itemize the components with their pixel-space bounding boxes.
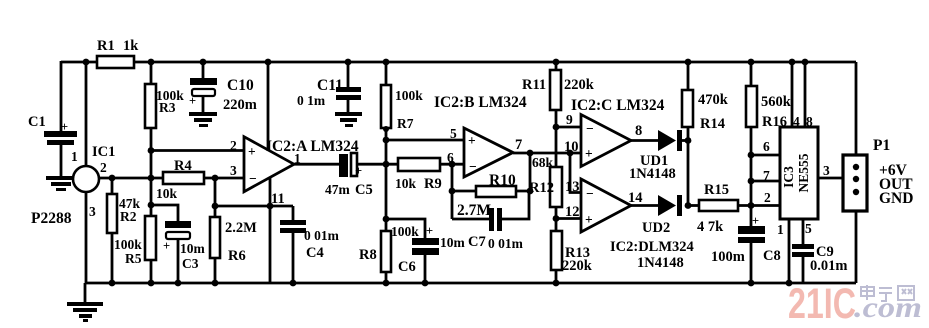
node: R14 bottom / UD1: [685, 137, 692, 144]
capacitor C5 (electrolytic 47m, in series): [325, 153, 373, 198]
svg-text:2: 2: [100, 160, 107, 175]
svg-text:3: 3: [89, 204, 96, 219]
node: R3 top on rail: [148, 59, 155, 66]
svg-text:12: 12: [565, 204, 580, 220]
ground (below C1): [46, 176, 76, 191]
svg-text:C8: C8: [763, 248, 781, 264]
node: R3/pin2 wire junction: [148, 147, 155, 154]
wire: R9 to IC2:B pin 6: [440, 163, 464, 166]
node: UD2 / R15: [685, 202, 692, 209]
svg-text:C10: C10: [227, 77, 254, 94]
wire: C8 bottom to rail: [750, 243, 753, 283]
wire: rail to 555 pin 4: [791, 62, 794, 127]
wire: C11 to ground: [347, 100, 350, 113]
svg-text:R8: R8: [359, 247, 377, 263]
resistor R4: [156, 158, 204, 201]
svg-text:R10: R10: [489, 172, 516, 189]
resistor R1: [97, 38, 139, 68]
wire: IC1 pin 3 to bottom rail: [85, 192, 88, 283]
svg-text:−: −: [586, 186, 594, 201]
svg-text:+: +: [585, 146, 593, 161]
svg-text:+: +: [189, 94, 196, 108]
wire: UD1 cathode to node: [682, 139, 688, 142]
svg-text:10m: 10m: [180, 241, 206, 256]
svg-text:IC1: IC1: [92, 144, 115, 160]
node: C8 bottom on rail: [748, 280, 755, 287]
svg-text:0 01m: 0 01m: [488, 236, 524, 251]
node: feedback right: [527, 188, 534, 195]
node: feedback tap at pin 6: [449, 161, 456, 168]
node: 555 pin 4 on rail: [789, 59, 796, 66]
svg-text:+: +: [61, 120, 68, 134]
svg-text:2: 2: [230, 138, 237, 153]
op-amp U4 IC2:D LM324: [565, 179, 643, 232]
node: R14 top on rail: [685, 59, 692, 66]
node: pin 11 crossing lower net: [267, 203, 274, 210]
wire: R3 bottom down through nodes to R5: [150, 128, 153, 216]
wire: C1 to ground: [60, 145, 63, 177]
microphone IC1 P2288: [31, 144, 115, 227]
wire: IC2:C output to UD1: [631, 139, 659, 142]
wire: C3 bottom to rail: [177, 239, 180, 283]
svg-text:+: +: [355, 164, 362, 178]
wire: R16 bottom down to pin 2 row: [750, 127, 753, 206]
svg-text:C4: C4: [306, 245, 324, 261]
svg-text:13: 13: [565, 179, 580, 195]
node: rail to mic pin 1: [83, 59, 90, 66]
svg-text:IC2:B LM324: IC2:B LM324: [434, 94, 527, 111]
node: pin 6 tap: [748, 152, 755, 159]
resistor R13: [551, 231, 593, 283]
svg-text:R7: R7: [397, 116, 414, 131]
diode UD2 1N4148: [610, 195, 694, 271]
svg-text:9: 9: [566, 112, 573, 127]
svg-text:C6: C6: [398, 259, 416, 275]
node: pin 12 node: [553, 215, 560, 222]
resistor R15: [697, 182, 738, 235]
node: R6 bottom on rail: [212, 280, 219, 287]
node: C3 bottom on rail: [175, 280, 182, 287]
wire: to 555 pin 6: [751, 154, 780, 157]
wire: 555 pin 1 to rail: [788, 219, 791, 283]
wire: R15 to 555 pin 2: [738, 204, 780, 207]
svg-text:470k: 470k: [698, 92, 729, 108]
wire: lower net to C4: [215, 205, 293, 208]
svg-text:5: 5: [805, 221, 812, 236]
svg-text:100m: 100m: [711, 249, 745, 265]
svg-text:8: 8: [635, 123, 642, 139]
resistor R2: [107, 178, 141, 283]
wire: R4 right to IC2:A pin 3: [204, 177, 244, 180]
wire: to IC2:C pin 9: [556, 126, 581, 129]
node: R4 right junction: [212, 175, 219, 182]
svg-text:IC2:C LM324: IC2:C LM324: [571, 97, 665, 114]
svg-text:1N4148: 1N4148: [637, 255, 684, 271]
svg-text:2.7M: 2.7M: [457, 202, 491, 219]
svg-text:C5: C5: [355, 182, 373, 198]
svg-text:6: 6: [763, 139, 770, 154]
svg-text:R5: R5: [125, 251, 142, 266]
wire: node to IC2:A pin 2: [151, 149, 244, 152]
resistor R11: [522, 62, 595, 110]
capacitor C1 (electrolytic): [28, 114, 77, 145]
svg-text:220m: 220m: [223, 97, 257, 113]
wire: to IC2:D pin 12: [556, 217, 581, 220]
svg-text:R3: R3: [159, 100, 176, 115]
node: 555 pin 8 on rail: [802, 59, 809, 66]
svg-text:+: +: [585, 212, 593, 227]
resistor R14: [682, 62, 729, 132]
node: signal/R7 vertical crossing: [383, 161, 390, 168]
node: C3 stub tap: [148, 202, 155, 209]
resistor R7: [381, 62, 423, 131]
svg-text:6: 6: [447, 150, 454, 165]
top supply rail (main, right of R1 to right corner): [134, 61, 856, 64]
node: R2 top: [109, 175, 116, 182]
svg-text:IC2:DLM324: IC2:DLM324: [610, 239, 694, 255]
ground (below C10): [189, 112, 217, 127]
node: R5 bottom on rail: [148, 280, 155, 287]
resistor R9: [395, 158, 442, 192]
wire: 555 pin 3 to P1: [818, 177, 843, 180]
svg-text:R1: R1: [97, 38, 115, 54]
node: R13 bottom on rail: [553, 280, 560, 287]
svg-text:R11: R11: [522, 77, 546, 93]
node: pin 2 / C8 junction: [748, 202, 755, 209]
wire: C5 to R9: [357, 163, 398, 166]
wire: C3 stub: [151, 205, 178, 222]
wire: IC2:A output to C5: [294, 163, 339, 166]
top supply rail (left segment to R1): [61, 61, 97, 64]
svg-text:GND: GND: [879, 190, 913, 207]
node: R7 top on rail: [383, 59, 390, 66]
connector P1: [843, 137, 913, 211]
svg-text:1k: 1k: [123, 38, 139, 54]
svg-text:−: −: [469, 159, 477, 174]
wire: branch to IC2:D pin 13: [570, 153, 581, 193]
node: R7 bottom: [383, 126, 389, 132]
resistor R8: [359, 231, 391, 283]
svg-text:C1: C1: [28, 114, 46, 130]
svg-text:10: 10: [564, 139, 579, 155]
svg-text:R15: R15: [704, 182, 729, 198]
svg-text:68k: 68k: [532, 155, 554, 170]
wire: to IC2:B pin 5: [386, 139, 464, 142]
capacitor C6 (electrolytic 10m): [391, 224, 466, 275]
node: pin 5 tap: [383, 137, 390, 144]
node: R8 bottom on rail: [383, 280, 390, 287]
svg-text:C7: C7: [468, 234, 486, 250]
node: mic wire crossing: [148, 175, 155, 182]
wire: C10 to ground: [202, 96, 205, 113]
node: C6 stub tap: [383, 216, 390, 223]
ground (below C11): [335, 112, 362, 127]
svg-text:10m: 10m: [440, 235, 466, 250]
svg-text:100k: 100k: [391, 224, 419, 239]
wire: R7 bottom down to R8: [385, 128, 388, 231]
wire: C6 stub: [386, 219, 425, 239]
svg-text:+: +: [248, 144, 256, 159]
svg-text:5: 5: [450, 126, 457, 141]
svg-text:21IC: 21IC: [788, 280, 856, 328]
svg-text:+: +: [426, 224, 433, 238]
svg-text:1: 1: [777, 222, 784, 237]
resistor R12 (68k): [529, 155, 562, 207]
wire: IC2:B output to IC2:C pin 10: [513, 152, 581, 155]
svg-text:220k: 220k: [564, 77, 595, 93]
capacitor C7 (0 01m): [468, 208, 524, 251]
svg-text:NE555: NE555: [796, 153, 811, 192]
wire: IC2:A pin 11 to ground rail: [269, 178, 272, 283]
wire: C9 bottom to rail: [802, 257, 805, 283]
svg-text:1N4148: 1N4148: [629, 166, 676, 182]
node: R2 bottom on rail: [109, 280, 116, 287]
svg-text:14: 14: [628, 190, 643, 206]
capacitor C11 (0 1m): [297, 59, 361, 108]
capacitor C8 (electrolytic 100m): [711, 206, 781, 266]
svg-text:+: +: [163, 239, 170, 253]
node: pin 13 branch tap: [567, 150, 574, 157]
node: R11 top on rail: [553, 59, 560, 66]
resistor R6: [210, 206, 257, 283]
svg-text:0 01m: 0 01m: [304, 228, 340, 243]
svg-text:2: 2: [764, 190, 771, 205]
wire: P1 bottom to ground rail: [855, 211, 858, 283]
node: pin 9 node: [553, 124, 560, 131]
svg-text:IC3: IC3: [781, 166, 796, 188]
svg-text:R14: R14: [700, 116, 725, 132]
svg-text:R6: R6: [228, 248, 246, 264]
wire: C7 loop bottom left: [452, 218, 491, 221]
svg-text:8: 8: [806, 114, 813, 129]
svg-text:R4: R4: [174, 158, 192, 174]
resistor R16: [746, 62, 792, 130]
watermark dianziwang glyphs: [861, 285, 914, 301]
wire: IC1 pin 2 to R4: [99, 177, 163, 180]
svg-text:7: 7: [763, 168, 770, 183]
wire: C7 loop bottom right: [501, 191, 529, 219]
svg-text:UD2: UD2: [642, 220, 670, 236]
svg-text:R9: R9: [424, 176, 442, 192]
wire: R11 bottom through to R12: [555, 110, 558, 167]
wire: rail to IC2:A pin 4: [267, 62, 270, 150]
resistor R5: [114, 216, 156, 283]
svg-text:+: +: [752, 214, 759, 228]
svg-text:3: 3: [230, 163, 237, 178]
svg-text:4: 4: [793, 114, 800, 129]
node: feedback left: [449, 188, 456, 195]
svg-text:4 7k: 4 7k: [697, 219, 724, 235]
wire: down from R4 node to lower net: [214, 178, 217, 206]
svg-text:560k: 560k: [761, 94, 792, 110]
svg-text:7: 7: [515, 137, 522, 153]
resistor R3: [145, 62, 184, 128]
node: C6 bottom on rail: [422, 280, 429, 287]
svg-text:3: 3: [823, 163, 830, 178]
svg-text:C3: C3: [182, 256, 199, 271]
svg-text:0 1m: 0 1m: [297, 93, 326, 108]
wire: left drop from rail to C1: [60, 61, 63, 132]
svg-text:0.01m: 0.01m: [810, 258, 847, 274]
svg-text:P1: P1: [873, 137, 890, 154]
svg-text:R2: R2: [120, 209, 137, 224]
node: R16 top on rail: [748, 59, 755, 66]
svg-text:+: +: [468, 133, 476, 148]
svg-text:10k: 10k: [156, 186, 178, 201]
svg-text:−: −: [586, 121, 594, 136]
svg-text:47m: 47m: [325, 182, 351, 197]
wire: 555 pin 5 to C9: [802, 219, 805, 245]
node: C4 bottom on rail: [290, 280, 297, 287]
timer IC3 NE555: [763, 114, 830, 237]
wire: right rail drop to P1: [855, 62, 858, 155]
wire: pin6 down to feedback row: [451, 164, 454, 219]
capacitor C9 (0.01m): [792, 244, 847, 274]
node: feedback top tap: [527, 150, 534, 157]
resistor R10: [457, 172, 516, 219]
svg-text:−: −: [249, 171, 257, 186]
node: pin 7 tap: [748, 178, 755, 185]
node: R6 top: [212, 203, 219, 210]
op-amp U1 IC2:A LM324: [230, 137, 359, 207]
node: pin 1 on rail: [786, 280, 793, 287]
wire: node to R15: [688, 204, 699, 207]
diode UD1 1N4148: [629, 130, 682, 182]
wire: rail to 555 pin 8: [804, 62, 807, 127]
op-amp U3 IC2:C LM324: [564, 97, 665, 167]
op-amp U2 IC2:B LM324: [434, 94, 527, 177]
svg-text:1: 1: [71, 149, 78, 164]
wire: IC2:D output to UD2: [631, 204, 659, 207]
wire: UD1 node down to UD2 node: [687, 127, 690, 206]
svg-text:R12: R12: [529, 180, 554, 196]
capacitor C4 (0 01m): [280, 206, 340, 283]
svg-text:P2288: P2288: [31, 210, 72, 227]
wire: R12 bottom to R13: [555, 207, 558, 231]
svg-text:100k: 100k: [114, 237, 142, 252]
svg-text:220k: 220k: [562, 258, 593, 274]
capacitor C10 (electrolytic 220m): [189, 59, 257, 113]
svg-text:2.2M: 2.2M: [225, 220, 257, 236]
bottom ground rail: [85, 282, 856, 285]
wire: to 555 pin 7: [751, 180, 780, 183]
wire: feedback row: [452, 190, 530, 193]
capacitor C3 (electrolytic 10m): [163, 221, 206, 271]
wire: feedback vertical: [529, 153, 532, 191]
svg-text:IC2:A LM324: IC2:A LM324: [266, 138, 359, 155]
wire: pin 1 of IC1 to rail: [85, 62, 88, 166]
svg-text:10k: 10k: [395, 176, 417, 191]
svg-text:100k: 100k: [395, 88, 423, 103]
wire: C6 bottom to rail: [424, 255, 427, 283]
node: op-amp supply tap on rail: [265, 59, 272, 66]
svg-text:C11: C11: [317, 77, 343, 94]
ground (main, bottom-left): [67, 283, 103, 322]
